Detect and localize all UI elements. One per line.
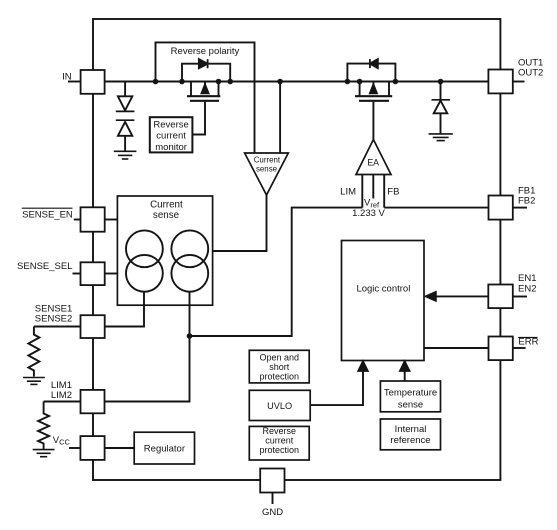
diode D3 (output clamp) <box>432 82 451 134</box>
box: Open and short protection <box>249 350 309 383</box>
box: Logic control <box>342 241 425 361</box>
wire: GND pin stub <box>272 493 274 505</box>
svg-text:FB: FB <box>387 186 399 197</box>
wire: current sense amp output to current sense block <box>213 195 267 251</box>
pin LIM1/LIM2 <box>81 390 105 413</box>
pin SENSE1/SENSE2 <box>81 315 105 338</box>
diode D2 (Q2 parallel diode) <box>370 59 378 68</box>
wire: LIM route to current sense junction <box>190 208 363 336</box>
svg-text:VCC: VCC <box>53 435 71 447</box>
svg-text:SENSE_EN: SENSE_EN <box>22 209 73 220</box>
node: sense loop tap <box>153 79 159 85</box>
node: sense amp tap <box>277 79 283 85</box>
wire: Q1 gate to reverse current monitor <box>192 102 205 135</box>
ground (under R1) <box>23 378 45 385</box>
wire: Q2 gate to EA <box>372 102 374 140</box>
svg-text:EN2: EN2 <box>518 283 536 294</box>
resistor R2 (limit) <box>38 402 49 450</box>
label: current sense triangle <box>254 156 281 174</box>
wire: current sense amp right input <box>279 82 281 154</box>
wire: Q1 body diode branch <box>182 64 230 82</box>
IC boundary box <box>93 19 500 480</box>
pin SENSE_SEL <box>81 262 105 285</box>
wire: temperature sense to logic control arrow <box>404 371 406 382</box>
svg-text:protection: protection <box>260 372 300 382</box>
resistor R1 (sense) <box>28 327 39 377</box>
pin EN1/EN2 <box>488 285 513 309</box>
svg-text:protection: protection <box>260 445 300 455</box>
pin ERR <box>489 337 513 361</box>
wire: ERR pin to logic control <box>424 347 488 349</box>
diode D1 (Q1 parallel diode) <box>199 59 208 68</box>
svg-text:Internal: Internal <box>395 424 427 435</box>
svg-text:sense: sense <box>398 399 423 410</box>
svg-text:current: current <box>156 131 186 142</box>
node: Q2 source stub <box>357 79 363 85</box>
wire: EN stub right of pin <box>513 296 527 298</box>
box: Temperature sense <box>380 381 440 412</box>
svg-text:reference: reference <box>390 435 430 446</box>
svg-text:sense: sense <box>153 210 180 221</box>
box: Internal reference <box>380 419 440 450</box>
svg-text:OUT2: OUT2 <box>518 68 543 79</box>
node: Q2 diode right <box>393 79 399 85</box>
wire: FB stub right of pin <box>513 207 527 209</box>
wire: reverse-polarity sense loop <box>156 42 255 153</box>
SENSE_SEL stub at label <box>73 273 81 275</box>
SENSE_EN stub at label <box>74 219 81 221</box>
svg-text:Temperature: Temperature <box>384 387 437 398</box>
node: clamp diode tap <box>438 79 444 85</box>
wire: EN pin arrow into logic control <box>435 295 489 297</box>
node: LIM junction <box>187 333 193 339</box>
svg-text:FB2: FB2 <box>518 196 535 207</box>
box: Current sense block <box>117 196 212 305</box>
svg-text:IN: IN <box>62 71 72 82</box>
wire: SENSE pin to external resistor <box>34 326 81 328</box>
wire: Vref input of EA <box>372 175 374 199</box>
wire: right mirror output down to LIM pin <box>105 292 190 402</box>
box: Regulator <box>134 432 194 464</box>
wire: LIM input of EA <box>361 175 363 208</box>
wire: OUT stub right of pin <box>513 81 525 83</box>
svg-text:SENSE_SEL: SENSE_SEL <box>17 261 72 272</box>
ground (under clamp diode) <box>429 134 453 141</box>
wire: VCC pin to regulator <box>105 447 134 449</box>
current mirror circles <box>126 230 208 291</box>
wire: SENSE_SEL stub to block <box>105 273 117 275</box>
svg-text:Reverse: Reverse <box>263 426 297 436</box>
svg-text:LIM2: LIM2 <box>51 390 72 401</box>
node: Q1 diode left <box>179 79 185 85</box>
transistor Q2 (main pass FET) <box>355 82 395 101</box>
svg-text:monitor: monitor <box>155 142 187 153</box>
svg-text:Reverse: Reverse <box>153 119 188 130</box>
svg-text:sense: sense <box>256 165 278 174</box>
wire: FB input of EA <box>383 175 385 208</box>
wire: left mirror output to SENSE pin <box>105 292 144 327</box>
label: Reverse current protection <box>260 426 300 455</box>
svg-text:1.233 V: 1.233 V <box>352 208 385 219</box>
pin FB1/FB2 <box>489 196 513 220</box>
pin SENSE_EN <box>81 207 105 231</box>
pin IN <box>81 70 105 94</box>
node: Q1 source stub <box>216 79 222 85</box>
pin GND <box>260 469 284 493</box>
wire: VCC label stub <box>69 447 80 449</box>
svg-text:Open and: Open and <box>260 353 300 363</box>
op-amp EA (error amplifier) <box>356 140 391 175</box>
svg-text:Reverse polarity: Reverse polarity <box>171 46 240 57</box>
label: Open and short protection <box>260 353 300 382</box>
svg-text:Regulator: Regulator <box>144 443 185 454</box>
svg-text:SENSE2: SENSE2 <box>35 314 73 325</box>
IN wire stub at label <box>68 81 81 83</box>
wire: FB route to FB pin <box>384 207 488 209</box>
ground (under R2) <box>33 450 55 457</box>
pin VCC <box>80 436 104 460</box>
box: UVLO <box>249 390 310 420</box>
box: Reverse current protection <box>249 426 309 460</box>
wire: LIM pin to external resistor <box>44 401 81 403</box>
svg-text:GND: GND <box>262 507 283 518</box>
svg-text:ERR: ERR <box>518 337 538 348</box>
pin OUT1/OUT2 <box>488 70 512 94</box>
ground (under zener pair) <box>114 151 137 159</box>
wire: main IN to OUT rail <box>105 81 488 83</box>
wire: ERR stub right of pin <box>513 347 526 349</box>
node: Q1 diode right <box>227 79 233 85</box>
wire: UVLO to logic control arrow <box>310 371 363 406</box>
node: Q2 diode left <box>345 79 351 85</box>
svg-text:UVLO: UVLO <box>267 401 292 411</box>
svg-text:Current: Current <box>150 199 183 210</box>
zener diode pair at IN <box>116 82 135 152</box>
transistor Q1 (reverse polarity FET) <box>182 82 220 101</box>
svg-text:Current: Current <box>254 156 281 165</box>
svg-text:Logic control: Logic control <box>356 283 410 294</box>
wire: SENSE_EN stub to block <box>105 219 117 221</box>
svg-text:EA: EA <box>367 158 379 168</box>
box: Reverse current monitor <box>150 117 193 152</box>
wire: Q2 body diode branch <box>347 64 395 82</box>
svg-text:LIM: LIM <box>340 186 356 197</box>
op-amp: current sense triangle <box>245 153 289 195</box>
